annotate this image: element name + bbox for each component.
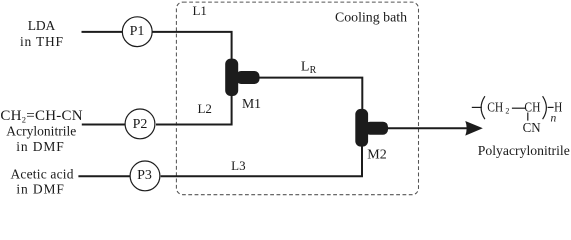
svg-text:P3: P3	[137, 168, 152, 183]
wire L2 (P2 to mixer M1)	[156, 96, 232, 125]
wire L1 (P1 to mixer M1)	[153, 32, 232, 60]
svg-text:CH: CH	[487, 101, 503, 116]
pump P3	[130, 161, 160, 191]
svg-text:CH: CH	[524, 101, 540, 116]
svg-text:Polyacrylonitrile: Polyacrylonitrile	[478, 143, 570, 158]
wire: product outlet from M2	[388, 127, 469, 129]
svg-text:Cooling bath: Cooling bath	[335, 9, 407, 24]
reagent label: acetic acid in DMF	[11, 167, 74, 197]
svg-text:2: 2	[505, 106, 509, 115]
svg-text:L2: L2	[197, 101, 211, 116]
backbone bond	[512, 107, 526, 109]
svg-text:P2: P2	[133, 117, 148, 132]
product structure: polyacrylonitrile repeat unit	[472, 96, 563, 136]
svg-text:CN: CN	[523, 121, 541, 136]
mixer M1 (T-mixer)	[225, 59, 259, 96]
trailing bond dash	[548, 106, 554, 108]
pump P2	[125, 109, 155, 139]
svg-text:CH2=CH-CN: CH2=CH-CN	[0, 108, 82, 125]
wire: LDA feed to P1	[82, 31, 125, 33]
svg-text:M2: M2	[367, 147, 387, 162]
reagent label: LDA in THF	[20, 18, 63, 49]
bond CH to CN	[527, 113, 529, 121]
wire LR (M1 to M2 residence line)	[258, 78, 362, 110]
svg-text:LDA: LDA	[28, 18, 56, 33]
svg-text:H: H	[554, 100, 562, 115]
close parenthesis	[543, 96, 547, 119]
svg-text:in DMF: in DMF	[16, 139, 64, 154]
pump P1	[122, 17, 152, 47]
svg-text:in DMF: in DMF	[16, 181, 64, 196]
open parenthesis	[481, 96, 485, 119]
svg-text:Acetic acid: Acetic acid	[11, 167, 74, 182]
reagent label: acrylonitrile in DMF	[0, 108, 82, 154]
svg-text:Acrylonitrile: Acrylonitrile	[6, 123, 76, 138]
svg-text:in THF: in THF	[20, 34, 63, 49]
svg-text:L: L	[301, 60, 310, 75]
svg-text:R: R	[310, 65, 317, 76]
wire L3 (P3 to mixer M2)	[161, 145, 362, 176]
wire: acetic acid feed to P3	[78, 175, 131, 177]
wire: acrylonitrile feed to P2	[82, 124, 127, 126]
arrowhead: product stream	[465, 121, 483, 136]
cooling bath enclosure	[176, 2, 418, 195]
svg-text:L1: L1	[192, 3, 206, 18]
svg-text:M1: M1	[242, 96, 261, 111]
label LR	[301, 60, 317, 77]
mixer M2 (T-mixer)	[355, 109, 388, 147]
svg-text:L3: L3	[231, 158, 245, 173]
svg-text:P1: P1	[130, 24, 145, 39]
leading bond dash	[472, 106, 482, 108]
